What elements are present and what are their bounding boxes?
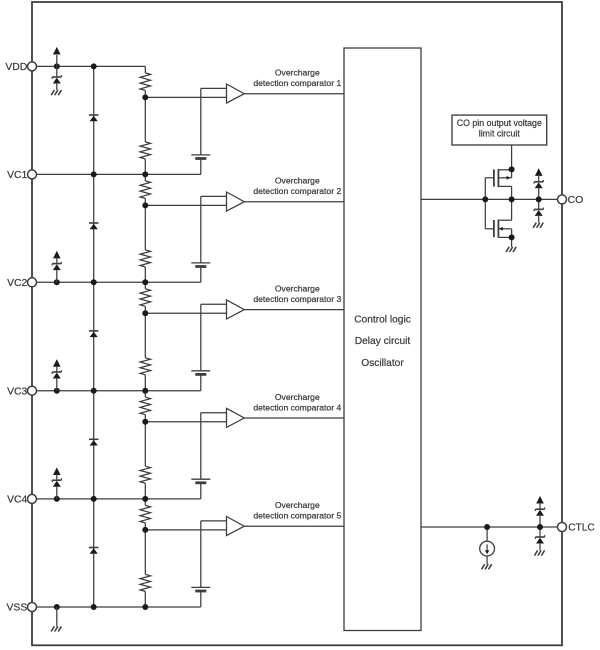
resistor R9 xyxy=(140,505,150,523)
junction on VC1 rail x=93.7 xyxy=(91,171,97,177)
op-amp comparator U5 xyxy=(227,517,245,536)
CO pin output voltage limit circuit box xyxy=(452,115,547,145)
wire resistor column row 4 xyxy=(144,391,146,398)
wire reference branch row 2 xyxy=(200,196,202,263)
transistor Q1 body lead xyxy=(498,177,511,179)
junction on VC4 rail x=145.3 xyxy=(142,496,148,502)
op-amp comparator U2 xyxy=(227,192,245,211)
wire reference branch row 1 xyxy=(200,88,202,154)
control logic block xyxy=(344,48,421,631)
transistor Q1 gate lead xyxy=(485,177,494,179)
junction CTLC current source xyxy=(484,524,490,530)
VDD ESD zener to ground xyxy=(56,66,58,77)
pin VC3 xyxy=(28,386,37,395)
diode D4 (clamp VC3-VC4) xyxy=(89,438,99,440)
resistor R7 xyxy=(140,397,150,415)
op-amp comparator U3 xyxy=(227,300,245,319)
wire VDD rail xyxy=(36,65,145,67)
wire VREF1 return xyxy=(200,158,202,174)
VC4 ESD arrow xyxy=(53,467,61,475)
junction divider tap row 4 xyxy=(142,419,148,425)
ground at VSS xyxy=(51,626,54,631)
ground at CO ESD xyxy=(533,223,536,228)
wire comparator 4 output xyxy=(244,417,344,419)
svg-text:Delay circuit: Delay circuit xyxy=(355,336,411,347)
pin VSS xyxy=(28,603,37,612)
VC3 ESD arrow xyxy=(53,359,61,367)
resistor R8 xyxy=(140,466,150,483)
junction on VC3 rail x=145.3 xyxy=(142,388,148,394)
wire VSS ground stub xyxy=(56,607,58,626)
junction on VC3 rail x=93.7 xyxy=(91,388,97,394)
transistor Q2 NMOS channel bar xyxy=(497,220,499,238)
wire reference branch row 4 xyxy=(200,413,202,480)
wire VSS rail xyxy=(36,606,201,608)
diode D2 (clamp VC1-VC2) xyxy=(89,222,99,224)
ground at Q2 source xyxy=(506,247,509,252)
wire reference branch row 3 xyxy=(200,304,202,371)
resistor R3 xyxy=(140,181,150,199)
pin VC4 xyxy=(28,494,37,503)
junction on VC4 rail x=56.8 xyxy=(54,496,60,502)
svg-text:VC4: VC4 xyxy=(7,495,27,506)
VC3 ESD zener xyxy=(52,371,61,373)
wire gate column xyxy=(484,178,486,229)
svg-text:CO pin output voltage: CO pin output voltage xyxy=(457,118,542,128)
wire comparator 5 plus input xyxy=(201,520,227,522)
wire VREF5 return xyxy=(200,591,202,607)
wire divider tap row 5 xyxy=(145,529,226,531)
junction on VC2 rail x=145.3 xyxy=(142,279,148,285)
svg-text:Oscillator: Oscillator xyxy=(361,358,404,369)
svg-text:VDD: VDD xyxy=(5,62,27,73)
junction on VC1 rail x=145.3 xyxy=(142,171,148,177)
voltage reference VREF5 xyxy=(191,586,210,588)
VC4 ESD zener xyxy=(52,479,61,481)
svg-text:VC1: VC1 xyxy=(7,170,27,181)
CO ESD arrow xyxy=(535,168,543,176)
junction on VSS rail x=145.3 xyxy=(142,604,148,610)
junction CO drain node xyxy=(509,196,515,202)
junction on VC3 rail x=56.8 xyxy=(54,388,60,394)
ground at current source xyxy=(482,564,485,569)
pin CO xyxy=(558,195,567,204)
op-amp comparator U1 xyxy=(227,84,245,103)
ground at VDD ESD xyxy=(51,90,54,95)
resistor R4 xyxy=(140,250,150,267)
svg-text:Overcharge: Overcharge xyxy=(275,176,320,186)
transistor Q2 NMOS gate bar xyxy=(493,220,495,237)
junction Q1 source node xyxy=(509,166,515,172)
transistor Q2 gate lead xyxy=(485,228,494,230)
diode D1 (clamp VDD-VC1) xyxy=(89,114,99,116)
current source I1 xyxy=(480,541,495,556)
junction on VSS rail x=93.7 xyxy=(91,604,97,610)
svg-text:detection comparator 4: detection comparator 4 xyxy=(253,402,341,412)
CTLC ESD zener upper xyxy=(535,508,544,510)
junction on VSS rail x=56.8 xyxy=(54,604,60,610)
wire VC3 rail xyxy=(36,390,201,392)
svg-text:Overcharge: Overcharge xyxy=(275,500,320,510)
transistor Q2 drain lead xyxy=(498,219,511,221)
resistor R10 xyxy=(140,574,150,591)
wire comparator 4 plus input xyxy=(201,412,227,414)
transistor Q2 source lead xyxy=(498,236,511,238)
junction divider tap row 3 xyxy=(142,310,148,316)
junction divider tap row 5 xyxy=(142,527,148,533)
wire VREF4 return xyxy=(200,483,202,499)
diode D3 (clamp VC2-VC3) xyxy=(89,330,99,332)
wire resistor column row 3 xyxy=(144,282,146,289)
VC2 ESD zener xyxy=(52,263,61,265)
voltage reference VREF1 xyxy=(191,154,210,156)
CO ESD zener lower xyxy=(538,199,540,209)
svg-text:Overcharge: Overcharge xyxy=(275,284,320,294)
junction on VC4 rail x=93.7 xyxy=(91,496,97,502)
svg-text:detection comparator 2: detection comparator 2 xyxy=(253,186,341,196)
transistor Q1 PMOS channel bar xyxy=(497,169,499,187)
wire divider tap row 2 xyxy=(145,204,226,206)
junction CO ESD xyxy=(536,196,542,202)
wire VC1 rail xyxy=(36,173,201,175)
pin CTLC xyxy=(558,523,567,532)
junction on VC2 rail x=56.8 xyxy=(54,279,60,285)
voltage reference VREF2 xyxy=(191,262,210,264)
wire resistor column row 1 xyxy=(144,66,146,73)
wire current source to ground xyxy=(486,556,488,564)
transistor Q1 PMOS gate bar xyxy=(493,169,495,186)
junction Q2 source node xyxy=(509,234,515,240)
resistor R6 xyxy=(140,358,150,375)
VDD ESD arrow to supply xyxy=(56,55,58,66)
transistor Q1 source lead xyxy=(498,169,511,171)
wire comparator 5 output xyxy=(244,525,344,527)
CTLC ESD arrow xyxy=(536,496,544,504)
svg-text:VC2: VC2 xyxy=(7,278,27,289)
transistor Q1 drain lead xyxy=(498,185,511,187)
wire reference branch row 5 xyxy=(200,521,202,588)
junction CTLC ESD xyxy=(537,524,543,530)
junction on VDD rail x=56.8 xyxy=(54,63,60,69)
svg-text:Overcharge: Overcharge xyxy=(275,392,320,402)
svg-text:detection comparator 5: detection comparator 5 xyxy=(253,511,341,521)
resistor R1 xyxy=(140,73,150,91)
wire resistor column row 2 xyxy=(144,174,146,181)
wire limit circuit to PMOS source xyxy=(511,145,513,169)
CTLC ESD zener lower xyxy=(539,527,541,537)
wire divider tap row 1 xyxy=(145,96,226,98)
pin VC2 xyxy=(28,278,37,287)
voltage reference VREF3 xyxy=(191,370,210,372)
transistor Q1 source-body tie xyxy=(511,169,513,177)
op-amp comparator U4 xyxy=(227,408,245,427)
wire VC2 rail xyxy=(36,281,201,283)
svg-text:detection comparator 3: detection comparator 3 xyxy=(253,294,341,304)
svg-text:Overcharge: Overcharge xyxy=(275,68,320,78)
ground at CTLC ESD xyxy=(534,550,537,555)
voltage reference VREF4 xyxy=(191,478,210,480)
junction on VC2 rail x=93.7 xyxy=(91,279,97,285)
svg-text:CTLC: CTLC xyxy=(568,523,595,534)
wire comparator 2 plus input xyxy=(201,195,227,197)
CO ESD zener upper xyxy=(534,181,543,183)
wire comparator 2 output xyxy=(244,201,344,203)
junction divider tap row 2 xyxy=(142,202,148,208)
wire comparator 3 plus input xyxy=(201,303,227,305)
svg-text:limit circuit: limit circuit xyxy=(479,129,521,139)
pin VC1 xyxy=(28,170,37,179)
resistor R2 xyxy=(140,142,150,159)
wire VC4 rail xyxy=(36,498,201,500)
wire VREF3 return xyxy=(200,374,202,390)
wire divider tap row 4 xyxy=(145,421,226,423)
transistor Q2 body lead xyxy=(498,228,511,230)
svg-text:Control logic: Control logic xyxy=(354,314,411,325)
svg-text:VSS: VSS xyxy=(7,603,28,614)
wire to current source xyxy=(486,527,488,541)
resistor R5 xyxy=(140,289,150,307)
junction divider tap row 1 xyxy=(142,94,148,100)
wire divider tap row 3 xyxy=(145,312,226,314)
wire VREF2 return xyxy=(200,266,202,282)
svg-text:VC3: VC3 xyxy=(7,386,27,397)
wire diode chain column xyxy=(93,66,95,607)
wire comparator 3 output xyxy=(244,309,344,311)
transistor Q2 source to ground xyxy=(511,229,513,247)
wire CO output net xyxy=(421,198,558,200)
junction gate node xyxy=(482,196,488,202)
svg-text:CO: CO xyxy=(568,194,584,206)
diode D5 (clamp VC4-VSS) xyxy=(89,547,99,549)
wire CTLC net xyxy=(421,526,558,528)
svg-text:detection comparator 1: detection comparator 1 xyxy=(253,78,341,88)
junction on VDD rail x=93.7 xyxy=(91,63,97,69)
wire comparator 1 output xyxy=(244,93,344,95)
VC2 ESD arrow xyxy=(53,251,61,259)
wire comparator 1 plus input xyxy=(201,87,227,89)
wire resistor column row 5 xyxy=(144,499,146,506)
pin VDD xyxy=(28,62,37,71)
